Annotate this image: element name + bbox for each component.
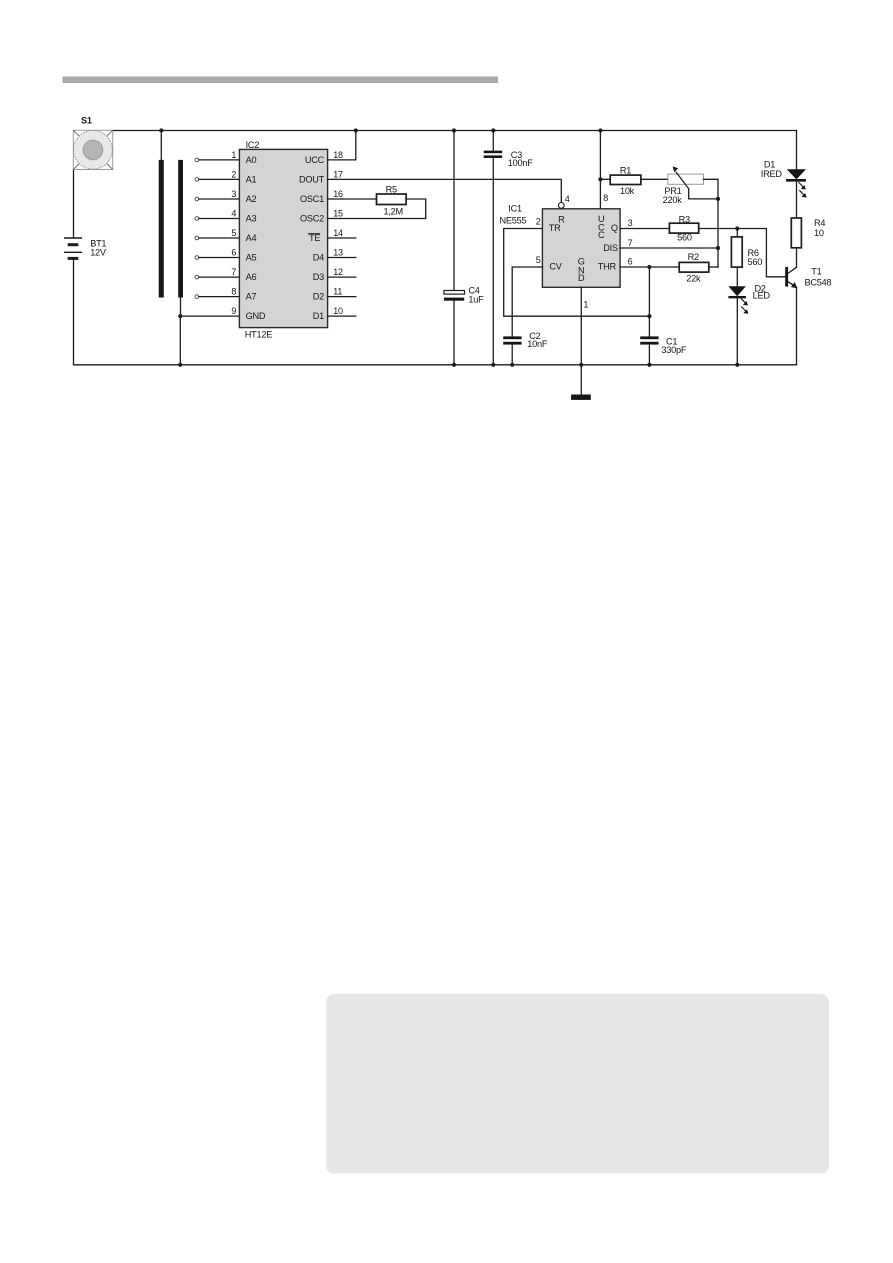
node junction pin9 [178, 314, 182, 318]
node junction C4 top [452, 128, 456, 132]
svg-text:1: 1 [231, 150, 236, 160]
pin 10 stub [328, 315, 356, 317]
svg-text:IC1: IC1 [508, 204, 522, 214]
svg-text:560: 560 [677, 233, 692, 243]
wire C4 branch [453, 131, 455, 291]
svg-text:IRED: IRED [761, 169, 783, 179]
wire PR1 wiper down and right [689, 189, 718, 199]
wire R4 to collector [796, 248, 798, 267]
pin 6 circle and wire [195, 256, 239, 260]
ground [571, 395, 591, 400]
IC2 HT12E body [239, 140, 327, 339]
svg-text:A1: A1 [246, 175, 257, 185]
svg-text:4: 4 [565, 194, 570, 204]
node junction C3 bottom [491, 363, 495, 367]
wire C4 to bottom rail [453, 301, 455, 365]
svg-text:6: 6 [231, 248, 236, 258]
wire C1 branch [648, 267, 650, 336]
node junction C4 bottom [452, 363, 456, 367]
svg-text:TE: TE [309, 233, 320, 243]
wire C3 to bottom rail [492, 158, 494, 365]
wire D1 to R4 [796, 182, 798, 218]
node junction DIS [716, 246, 720, 250]
svg-text:12: 12 [333, 267, 343, 277]
node junction wiper [716, 197, 720, 201]
svg-text:8: 8 [231, 287, 236, 297]
svg-text:220k: 220k [663, 195, 683, 205]
svg-text:7: 7 [628, 238, 633, 248]
svg-text:D4: D4 [313, 253, 324, 263]
resistor R4 [791, 218, 825, 248]
svg-text:4: 4 [231, 209, 236, 219]
svg-text:DIS: DIS [603, 243, 618, 253]
svg-text:UCC: UCC [305, 155, 325, 165]
node junction top rail / bar1 [159, 128, 163, 132]
svg-text:15: 15 [333, 209, 343, 219]
header gray bar [63, 77, 499, 84]
wire R1 to PR1 [641, 178, 668, 180]
svg-text:S1: S1 [81, 116, 92, 126]
svg-text:D3: D3 [313, 272, 324, 282]
svg-text:10: 10 [333, 306, 343, 316]
svg-text:R2: R2 [688, 252, 699, 262]
svg-text:HT12E: HT12E [245, 329, 272, 339]
svg-text:10: 10 [814, 228, 824, 238]
wire bottom rail [74, 364, 797, 366]
svg-text:CV: CV [549, 261, 562, 271]
resistor R1 [610, 165, 641, 196]
svg-text:1,2M: 1,2M [383, 206, 402, 216]
wire battery to bottom rail [73, 259, 75, 365]
wire top rail to D1 [796, 131, 798, 170]
wire OSC1 pin 16 to R5 [328, 198, 377, 200]
wire emitter to bottom rail [796, 288, 798, 365]
svg-text:18: 18 [333, 150, 343, 160]
svg-text:1: 1 [583, 299, 588, 309]
pin 14 stub [328, 237, 356, 239]
wire TR pin 2 loop [504, 229, 650, 317]
wire R3 to base branch [699, 229, 786, 277]
node junction THR/C1 [647, 265, 651, 269]
capacitor C1 [640, 336, 687, 354]
svg-text:R1: R1 [620, 165, 631, 175]
wire R1 left [600, 178, 610, 180]
svg-text:Q: Q [611, 223, 618, 233]
svg-text:16: 16 [333, 189, 343, 199]
connector bar 1 [159, 160, 164, 298]
svg-text:5: 5 [536, 255, 541, 265]
pin 7 circle and wire [195, 275, 239, 279]
svg-text:OSC1: OSC1 [300, 194, 324, 204]
potentiometer PR1 [663, 166, 704, 205]
svg-text:10k: 10k [620, 186, 635, 196]
svg-text:9: 9 [231, 306, 236, 316]
wire R6 top [736, 229, 738, 237]
wire top rail to connector bar 1 [160, 131, 162, 160]
capacitor C2 [503, 331, 548, 349]
node junction D2 bottom [735, 363, 739, 367]
svg-text:D1: D1 [313, 311, 324, 321]
svg-text:R4: R4 [814, 218, 825, 228]
svg-text:100nF: 100nF [508, 158, 533, 168]
wire CV pin 5 to C2 [512, 267, 542, 336]
svg-text:8: 8 [603, 193, 608, 203]
wire GND pin 9 [180, 315, 239, 317]
svg-text:5: 5 [231, 228, 236, 238]
svg-text:3: 3 [628, 218, 633, 228]
pin 8 circle and wire [195, 295, 239, 299]
wire C2 to bottom rail [511, 345, 513, 365]
wire R5 to OSC2 pin 15 [328, 199, 426, 219]
pin 5 circle and wire [195, 236, 239, 240]
svg-text:2: 2 [536, 216, 541, 226]
wire pin9 to bottom rail [179, 316, 181, 365]
wire Q pin 3 to R3 [620, 228, 669, 230]
pin 18 stub and wire to top rail [328, 131, 356, 160]
pin 4 circle and wire [195, 217, 239, 221]
svg-text:BC548: BC548 [805, 278, 832, 288]
pin 13 stub [328, 257, 356, 259]
wire left from S1 to battery [73, 170, 75, 239]
wire C1 to bottom rail [648, 345, 650, 365]
node junction TR link / C1 [647, 314, 651, 318]
connector bar 2 [178, 160, 183, 298]
svg-text:560: 560 [748, 257, 763, 267]
info gray rounded panel [326, 994, 829, 1174]
wire GND pin 1 down [580, 287, 582, 394]
diode D2 LED [728, 284, 770, 314]
node junction R6 top [735, 226, 739, 230]
svg-text:T1: T1 [811, 267, 821, 277]
node junction UCC top [598, 128, 602, 132]
wire UCC pin 8 branch [599, 131, 601, 209]
svg-text:7: 7 [231, 267, 236, 277]
svg-text:2: 2 [231, 169, 236, 179]
svg-text:11: 11 [333, 287, 342, 297]
battery BT1 [64, 238, 107, 258]
svg-text:14: 14 [333, 228, 343, 238]
wire bar2 to GND pin [180, 298, 182, 317]
wire C3 branch [492, 131, 494, 151]
pin 2 circle and wire [195, 178, 239, 182]
wire R2 right [709, 266, 718, 268]
switch S1 [73, 116, 112, 170]
node junction R1 tap [598, 177, 602, 181]
diode D1 IRED [761, 160, 807, 198]
wire top rail [113, 130, 797, 132]
resistor R5 [377, 184, 407, 216]
svg-text:GND: GND [246, 311, 266, 321]
svg-text:A2: A2 [246, 194, 257, 204]
svg-text:DOUT: DOUT [299, 175, 325, 185]
wire DIS pin 7 [620, 247, 718, 249]
svg-text:1uF: 1uF [468, 294, 484, 304]
svg-text:D: D [578, 273, 585, 283]
svg-text:6: 6 [628, 257, 633, 267]
svg-text:A6: A6 [246, 272, 257, 282]
svg-text:A3: A3 [246, 214, 257, 224]
svg-text:A5: A5 [246, 253, 257, 263]
capacitor C3 [484, 150, 534, 168]
svg-text:C: C [598, 230, 605, 240]
wire DOUT pin 17 to pin 4 of IC1 [328, 179, 562, 202]
capacitor C4 [444, 286, 484, 305]
svg-text:330pF: 330pF [661, 345, 686, 355]
svg-text:A7: A7 [246, 292, 257, 302]
svg-text:13: 13 [333, 248, 343, 258]
svg-text:17: 17 [333, 169, 343, 179]
node junction C3 top [491, 128, 495, 132]
svg-text:THR: THR [598, 261, 617, 271]
svg-text:D2: D2 [313, 292, 324, 302]
svg-text:12V: 12V [90, 247, 107, 257]
pin 12 stub [328, 276, 356, 278]
svg-text:IC2: IC2 [246, 140, 260, 150]
node junction bottom rail GND [178, 363, 182, 367]
resistor R6 [731, 237, 762, 267]
pin 1 circle and wire [195, 158, 239, 162]
svg-text:R3: R3 [679, 214, 690, 224]
svg-text:OSC2: OSC2 [300, 214, 324, 224]
pin 3 circle and wire [195, 197, 239, 201]
IC1 NE555 body [500, 193, 633, 309]
svg-text:LED: LED [753, 291, 771, 301]
wire R6 to D2 [736, 267, 738, 286]
resistor R2 [679, 252, 709, 284]
svg-text:R5: R5 [386, 184, 397, 194]
svg-text:A0: A0 [246, 155, 257, 165]
svg-text:NE555: NE555 [500, 216, 527, 226]
wire THR pin 6 to R2 [620, 266, 679, 268]
node junction pin18 top rail [354, 128, 358, 132]
svg-text:TR: TR [549, 223, 561, 233]
wire PR1 right terminal down [704, 179, 719, 267]
svg-text:10nF: 10nF [527, 339, 548, 349]
resistor R3 [669, 214, 698, 242]
node junction pin1 bottom rail [579, 363, 583, 367]
wire D2 to bottom rail [736, 298, 738, 364]
svg-text:3: 3 [231, 189, 236, 199]
pin 11 stub [328, 296, 356, 298]
node junction C1 bottom [647, 363, 651, 367]
node junction C2 bottom [510, 363, 514, 367]
svg-text:22k: 22k [686, 274, 701, 284]
transistor T1 [785, 267, 831, 289]
svg-text:A4: A4 [246, 233, 257, 243]
